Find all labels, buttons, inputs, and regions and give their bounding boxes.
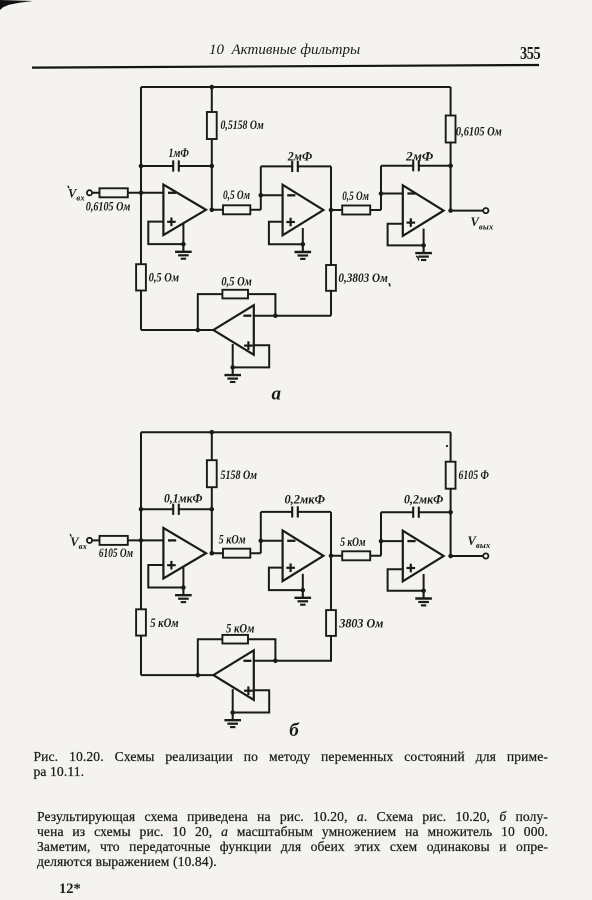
wire to op-amp 3 minus (б) (381, 540, 403, 542)
wire capacitor C2 row (б) (261, 511, 331, 513)
resistor 0,5 Ом left vertical (a) (136, 264, 146, 290)
svg-text:Vвых: Vвых (468, 534, 491, 550)
wire output (б) (451, 555, 483, 557)
wire node-1 vertical (a) (211, 87, 213, 210)
wire + loop op-amp 2 (б) (269, 568, 303, 591)
svg-text:б: б (289, 720, 300, 741)
label 0,5158 Ом (a) (221, 118, 264, 132)
svg-text:2мФ: 2мФ (287, 149, 313, 163)
junction op-amp 4 minus (a) (273, 313, 278, 318)
svg-text:5 кОм: 5 кОм (219, 532, 246, 546)
resistor 0,5 Ом (a) (223, 205, 250, 214)
junction node 2 (б) (329, 554, 334, 559)
op-amp 2 (б) (283, 531, 324, 582)
label 0,2мкФ (б) (285, 493, 326, 507)
svg-text:0,2мкФ: 0,2мкФ (285, 493, 326, 507)
junction node 3 output (б) (448, 554, 453, 559)
junction cap C1 right (б) (210, 507, 215, 512)
wire node-2 vertical (a) (330, 166, 332, 315)
label 6105 Ф (б) (459, 468, 490, 482)
svg-text:5 кОм: 5 кОм (340, 535, 365, 549)
op-amp 1 (a) (163, 185, 206, 236)
label 2мФ (a) (405, 150, 434, 164)
junction node 2 (a) (329, 208, 334, 213)
wire capacitor C3 row (б) (381, 511, 451, 513)
wire top rail (б) (141, 431, 451, 433)
capacitor C2 0,2мкФ (б) (292, 506, 298, 517)
svg-text:Vвх: Vвх (70, 535, 87, 551)
op-amp 4 feedback (б) (213, 650, 253, 700)
resistor 5 кОм (б) (223, 549, 250, 558)
label 5 кОм (б) (219, 532, 246, 546)
wire cap C3 left vertical (a) (380, 166, 382, 194)
wire cap C2 left vertical (б) (260, 512, 262, 541)
scan artifact top-left corner (0, 0, 60, 20)
wire node2 to R3 (б) (331, 555, 381, 557)
ground op-amp 4 (б) (224, 713, 241, 728)
wire bottom rail (б) (141, 674, 213, 676)
junction + loop op-amp 4 (б) (230, 710, 235, 715)
wire cap C2 left vertical (a) (260, 166, 262, 195)
label 2мФ (a) (287, 149, 313, 163)
wire left rail (б) (140, 432, 142, 675)
label 1мФ (a) (169, 146, 190, 160)
wire + loop op-amp 3 (a) (388, 224, 424, 246)
scan speck near 0,3803 label (389, 284, 390, 287)
svg-text:0,2мкФ: 0,2мкФ (404, 493, 444, 507)
svg-text:0,6105 Ом: 0,6105 Ом (456, 124, 502, 138)
wire + loop op-amp 1 (a) (148, 222, 183, 245)
junction cap C1 left (б) (139, 507, 144, 512)
svg-text:5 кОм: 5 кОм (150, 616, 178, 630)
wire node-1 vertical (б) (211, 432, 213, 553)
wire capacitor C1 row (б) (141, 508, 212, 510)
label 5 кОм left (б) (150, 616, 178, 630)
label 5 кОм feedback (б) (226, 621, 254, 635)
body paragraph line 2 (37, 824, 548, 840)
wire to op-amp 2 minus (б) (261, 540, 283, 542)
wire right vertical (a) (450, 87, 452, 211)
resistor 6105 Ф (б) (446, 462, 456, 489)
label section б (б) (289, 720, 300, 741)
resistor 0,5158 Ом (a) (207, 112, 217, 139)
wire R3 riser (б) (380, 541, 382, 556)
ground op-amp 1 (б) (175, 588, 192, 603)
wire R2 riser (б) (260, 541, 262, 553)
wire output (a) (451, 210, 483, 212)
ground op-amp 3 (a) (415, 245, 432, 260)
junction op-amp 4 minus (б) (273, 659, 278, 664)
junction + loop op-amp 1 (a) (181, 242, 186, 247)
junction cap C3 right (б) (448, 510, 453, 515)
svg-text:0,5 Ом: 0,5 Ом (221, 275, 251, 289)
capacitor C3 0,2мкФ (б) (413, 507, 419, 518)
ground op-amp 1 (a) (175, 244, 192, 259)
running head chapter title (209, 42, 360, 59)
label Vвых (a) (471, 215, 494, 231)
wire + loop op-amp 1 (б) (148, 565, 183, 588)
capacitor C2 2мФ (a) (292, 161, 298, 172)
capacitor C1 1мФ (a) (173, 160, 179, 171)
wire node2 to R3 (a) (331, 209, 381, 211)
junction + loop op-amp 2 (б) (301, 588, 306, 593)
label 0,3803 Ом (a) (338, 271, 387, 285)
label 0,2мкФ (б) (404, 493, 444, 507)
wire op-amp 4 minus input (a) (254, 315, 331, 317)
wire top rail (a) (141, 86, 451, 88)
svg-text:0,1мкФ: 0,1мкФ (164, 491, 203, 505)
wire capacitor C2 row (a) (261, 165, 331, 167)
output terminal (б) (483, 553, 488, 558)
resistor 3803 Ом vertical (б) (326, 610, 336, 636)
label 6105 Ом input (б) (99, 546, 133, 560)
ground op-amp 2 (б) (295, 590, 312, 605)
svg-text:5 кОм: 5 кОм (226, 621, 254, 635)
junction top rail / node-1 (a) (210, 85, 215, 90)
wire feedback resistor loop (a) (198, 294, 276, 330)
op-amp 2 (a) (283, 185, 324, 236)
capacitor C3 2мФ (a) (413, 160, 419, 171)
svg-text:0,6105 Ом: 0,6105 Ом (86, 199, 131, 213)
junction + loop op-amp 2 (a) (301, 242, 306, 247)
resistor 0,5 Ом (a) (342, 206, 370, 215)
output terminal (a) (483, 208, 488, 213)
junction op-amp 2 minus (б) (259, 539, 264, 544)
svg-text:6105 Ф: 6105 Ф (459, 468, 490, 482)
junction + loop op-amp 1 (б) (181, 585, 186, 590)
resistor 0,6105 Ом (a) (446, 116, 456, 143)
wire feedback resistor loop (б) (198, 639, 276, 675)
figure caption line 2 (34, 764, 549, 780)
junction feedback loop bottom (б) (196, 673, 201, 678)
wire op-amp 4 minus input (б) (254, 660, 331, 662)
junction node 1 (a) (210, 208, 215, 213)
svg-text:0,3803 Ом: 0,3803 Ом (338, 271, 387, 285)
svg-text:3803 Ом: 3803 Ом (338, 617, 383, 631)
label 3803 Ом (б) (338, 617, 383, 631)
label 0,5 Ом (a) (223, 188, 250, 202)
capacitor C1 0,1мкФ (б) (173, 504, 179, 515)
wire + loop op-amp 4 (a) (233, 344, 270, 367)
label Vвх (a) (68, 186, 86, 203)
resistor 0,3803 Ом vertical (a) (326, 265, 336, 291)
label Vвх (б) (70, 534, 88, 551)
op-amp 4 feedback (a) (213, 305, 253, 355)
junction + loop op-amp 3 (a) (421, 243, 426, 248)
junction op-amp 3 minus (б) (379, 539, 384, 544)
op-amp 1 (б) (163, 528, 206, 579)
resistor 5 кОм feedback (б) (222, 635, 248, 644)
svg-text:Vвых: Vвых (471, 215, 494, 231)
svg-text:0,5158 Ом: 0,5158 Ом (221, 118, 264, 132)
svg-text:1мФ: 1мФ (169, 146, 190, 160)
junction node 1 (б) (210, 551, 215, 556)
svg-text:Vвх: Vвх (68, 186, 85, 202)
body paragraph line 3 (37, 839, 548, 855)
wire node1 to R2 (a) (212, 209, 261, 211)
wire + loop op-amp 3 (б) (388, 569, 424, 591)
page number 355 (520, 43, 540, 64)
op-amp 3 (б) (403, 531, 444, 582)
label 0,5 Ом feedback (a) (221, 275, 251, 289)
svg-text:а: а (272, 383, 282, 404)
junction feedback loop bottom (a) (196, 328, 201, 333)
label Vвых (б) (468, 534, 491, 550)
label 5 кОм (б) (340, 535, 365, 549)
junction op-amp 2 minus (a) (259, 193, 264, 198)
svg-text:5158 Ом: 5158 Ом (221, 468, 258, 482)
junction node 3 output (a) (448, 208, 453, 213)
wire + loop op-amp 2 (a) (269, 222, 303, 245)
junction + loop op-amp 3 (б) (421, 589, 426, 594)
wire + loop op-amp 4 (б) (233, 689, 270, 712)
resistor 5158 Ом (б) (207, 460, 217, 487)
resistor 6105 Ом input (б) (100, 536, 128, 545)
signature mark 12* (59, 881, 81, 898)
ground op-amp 3 (б) (415, 591, 432, 606)
header rule (0, 0, 592, 80)
label 0,5 Ом left (a) (149, 271, 179, 285)
svg-text:0,5 Ом: 0,5 Ом (223, 188, 250, 202)
wire node1 to R2 (б) (212, 552, 261, 554)
junction top rail / node-1 (б) (210, 430, 215, 435)
wire capacitor C1 row (a) (141, 165, 212, 167)
wire cap C3 left vertical (б) (380, 512, 382, 541)
junction input node (б) (139, 538, 144, 543)
junction cap C3 right (a) (448, 163, 453, 168)
svg-text:6105 Ом: 6105 Ом (99, 546, 133, 560)
wire to op-amp 3 minus (a) (381, 193, 403, 195)
label 0,6105 Ом (a) (456, 124, 502, 138)
label 0,5 Ом (a) (342, 189, 369, 203)
resistor 5 кОм (б) (342, 551, 370, 560)
wire bottom rail (a) (141, 329, 213, 331)
junction + loop op-amp 4 (a) (230, 365, 235, 370)
wire capacitor C3 row (a) (381, 165, 451, 167)
wire R2 riser (a) (260, 195, 262, 210)
input terminal (a) (87, 190, 92, 195)
junction input node (a) (139, 191, 144, 196)
scan speck right of circuit a (416, 256, 419, 261)
resistor 5 кОм left vertical (б) (136, 609, 146, 635)
op-amp 3 (a) (403, 185, 444, 236)
wire R3 riser (a) (380, 194, 382, 211)
junction cap C1 left (a) (139, 164, 144, 169)
label section а (a) (272, 383, 282, 404)
wire input (б) (92, 539, 163, 541)
ground op-amp 4 (a) (224, 367, 241, 382)
svg-text:0,5 Ом: 0,5 Ом (342, 189, 369, 203)
svg-text:2мФ: 2мФ (405, 150, 434, 164)
junction cap C1 right (a) (210, 164, 215, 169)
wire to op-amp 2 minus (a) (261, 194, 283, 196)
resistor 0,6105 Ом input (a) (100, 188, 128, 197)
ground op-amp 2 (a) (295, 244, 312, 259)
wire input (a) (92, 192, 163, 194)
wire right vertical (б) (450, 432, 452, 556)
input terminal (б) (87, 538, 92, 543)
junction op-amp 3 minus (a) (379, 191, 384, 196)
scan speck in circuit b (446, 445, 448, 447)
body paragraph line 4 (37, 854, 548, 870)
label 0,6105 Ом input (a) (86, 199, 131, 213)
label 5158 Ом (б) (221, 468, 258, 482)
resistor 0,5 Ом feedback (a) (222, 290, 248, 299)
svg-text:0,5 Ом: 0,5 Ом (149, 271, 179, 285)
figure caption line 1 (34, 749, 549, 765)
wire node-2 vertical (б) (330, 512, 332, 662)
body paragraph line 1 (37, 809, 548, 825)
wire left rail (a) (140, 87, 142, 330)
label 0,1мкФ (б) (164, 491, 203, 505)
